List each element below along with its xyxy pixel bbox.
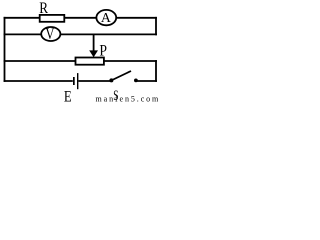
battery E: short thick plate — [73, 77, 75, 85]
wire V row right (voltmeter to right vertical, passes wiper junction) — [60, 33, 157, 35]
wire ammeter to top-right corner — [116, 17, 157, 19]
background — [0, 0, 161, 103]
ammeter U: ellipse — [96, 10, 116, 25]
switch S: right contact dot — [134, 79, 138, 83]
wire rheostat row right (P to right vertical) — [104, 60, 157, 62]
voltmeter: ellipse — [41, 27, 60, 41]
svg-text:S: S — [113, 87, 118, 103]
svg-text:V: V — [46, 26, 55, 43]
svg-text:manfen5.com: manfen5.com — [96, 94, 161, 103]
wire right vertical upper (top row down to V row) — [155, 17, 157, 35]
wire bottom left (left node to battery) — [4, 80, 73, 82]
svg-text:P: P — [99, 43, 107, 60]
rheostat P (box) — [76, 58, 104, 65]
wire top (left node to R) — [4, 17, 40, 19]
switch S: blade — [112, 71, 131, 80]
wire R to ammeter — [65, 17, 97, 19]
wire left vertical (joins all four rows) — [4, 17, 6, 82]
svg-text:R: R — [39, 0, 48, 17]
battery E: long thin plate — [77, 73, 78, 89]
wiper wire (from V row down) — [93, 35, 95, 52]
wire V row left (left node to voltmeter) — [4, 33, 42, 35]
wire battery to switch — [78, 80, 110, 82]
svg-text:A: A — [101, 10, 111, 25]
svg-text:E: E — [64, 89, 72, 103]
resistor R (box) — [40, 15, 65, 22]
wire right vertical lower (rheostat row down to switch row) — [155, 60, 157, 82]
switch S: left contact dot — [109, 78, 113, 82]
wiper arrowhead — [89, 50, 98, 57]
wire switch to bottom-right corner — [137, 80, 158, 82]
wire rheostat row left (left node to P) — [4, 60, 76, 62]
